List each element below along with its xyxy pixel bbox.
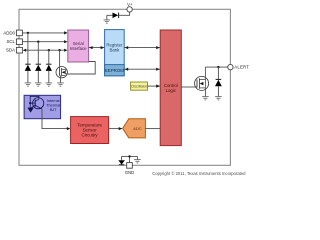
transistor Q2 (thermal BJT symbol) [27,96,43,112]
ground under Q1 [57,83,64,86]
svg-text:Logic: Logic [166,88,177,93]
svg-text:Circuitry: Circuitry [82,133,99,138]
wire diode D1 column [27,33,29,64]
arrowhead ADD0 into Serial Interface [64,31,68,34]
wire Q1 drain loop to Serial Interface [65,62,95,75]
wire SDA line [26,49,67,51]
ground under D2 [35,83,42,86]
wire Oscillator to Control Logic [148,84,161,87]
svg-text:GND: GND [125,170,134,175]
pin ADD0 [3,30,22,36]
svg-text:EEPROM: EEPROM [105,68,124,73]
wire ALERT rail [205,66,227,68]
wire Q3 drain to ALERT rail [204,67,206,79]
wire diode D3 column [48,50,50,64]
arrowhead SDA into Serial Interface [64,49,68,52]
diode ALERT clamp [215,67,222,96]
svg-text:V+: V+ [127,2,133,7]
pin SCL [6,39,22,45]
svg-text:Oscillator: Oscillator [131,85,148,89]
ESD diode D2 [35,64,41,83]
node ALERT diode junction [217,66,219,68]
pin SDA [6,47,22,53]
ESD diode D1 [25,64,31,83]
node SCL / ESD diode D2 junction [37,41,39,43]
wire Register Bank to Control Logic bus [124,46,160,49]
svg-text:Copyright © 2011, Texas Instru: Copyright © 2011, Texas Instruments Inco… [152,171,246,176]
wire Internal Thermal BJT to Temperature Sensor Circuitry [42,109,70,130]
ground under D1 [25,83,32,86]
pin ALERT [228,64,250,69]
arrowhead SDA into pin [23,49,27,52]
svg-text:Interface: Interface [70,46,87,51]
wire Temperature Sensor Circuitry to ADC [109,127,123,130]
block Temperature Sensor Circuitry [71,117,109,144]
transistor Q3 (ALERT open-drain MOSFET) [195,76,209,90]
svg-text:Internal: Internal [47,99,60,103]
wire ADD0 line [22,32,66,34]
svg-text:SCL: SCL [6,39,15,44]
wire Q1 source to ground [60,75,62,82]
wire EEPROM to Control Logic bus [124,68,160,71]
block EEPROM [105,65,125,76]
svg-text:SDA: SDA [6,48,15,53]
diode V+ clamp [107,13,119,20]
svg-text:ADC: ADC [133,126,142,131]
arrowhead SCL into Serial Interface [64,40,68,43]
ground right of GND pin [134,156,141,163]
wire ADC to Control Logic [145,128,160,130]
transistor Q1 (SDA open-drain MOSFET) [56,67,67,78]
ESD diode D3 [46,64,52,83]
block Control Logic [160,30,181,146]
wire SCL line [22,41,66,43]
ground under ALERT clamp diode [215,97,222,100]
node GND junction [128,155,130,157]
ground under Q3 [202,97,209,100]
svg-text:ALERT: ALERT [234,65,249,70]
wire V+ to clamp diode [119,12,130,15]
wire Q3 source to ground [204,88,206,97]
svg-text:Thermal: Thermal [46,103,60,107]
block Internal Thermal BJT [24,95,61,118]
pin GND [125,163,134,176]
wire SDA to Q1 gate [59,50,61,68]
svg-text:ADD0: ADD0 [3,30,15,35]
ground under D3 [46,83,53,86]
diode GND substrate [118,156,125,164]
node SDA / ESD diode D3 junction [48,49,50,51]
block Register Bank [105,30,125,76]
node ADD0 / ESD diode D1 junction [27,32,29,34]
ground for V+ clamp diode [104,20,111,23]
pin V+ [127,2,133,12]
wire diode D2 column [37,42,39,64]
IC boundary [19,9,230,165]
block Serial Interface [68,30,89,62]
svg-text:Bank: Bank [110,48,121,53]
block Oscillator [131,82,148,90]
wire GND rail [122,156,138,163]
svg-text:BJT: BJT [50,108,57,112]
op-amp style ADC block [123,119,146,138]
wire Control Logic to Q3 gate [181,86,197,88]
node SDA / Q1 gate junction [58,49,60,51]
wire Serial Interface to Register Bank bus [89,46,105,49]
